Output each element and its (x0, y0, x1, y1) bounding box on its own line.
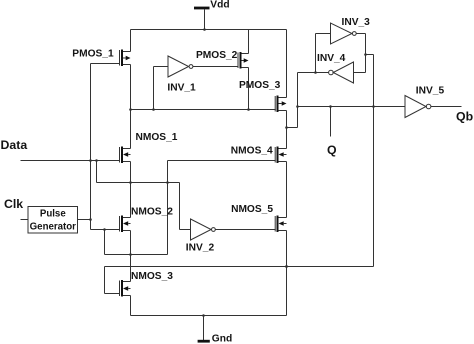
wire to INV_2 input (180, 183, 191, 230)
inverter INV_2 (191, 219, 216, 240)
svg-text:INV_3: INV_3 (342, 17, 371, 28)
svg-text:INV_2: INV_2 (186, 243, 215, 254)
node Data junction (89, 159, 92, 162)
wire PMOS_2 source to node X (247, 68, 250, 111)
wire PMOS_3 source down to NMOS_4 drain (286, 111, 288, 149)
svg-text:NMOS_2: NMOS_2 (131, 207, 173, 218)
svg-text:PMOS_3: PMOS_3 (239, 80, 281, 91)
inverter INV_1 (168, 56, 193, 77)
wire middle horizontal (97, 182, 180, 184)
wire Vdd rail (131, 29, 287, 31)
inverter INV_5 (405, 96, 431, 118)
wire storage node branch to INV_4 output (285, 73, 297, 129)
wire NMOS_3 gate riser to feedback (105, 267, 121, 294)
transistor NMOS_3 (120, 280, 131, 297)
svg-text:NMOS_1: NMOS_1 (136, 132, 178, 143)
transistor PMOS_2 (238, 52, 249, 69)
transistor NMOS_2 (120, 216, 131, 233)
wire Qb output (431, 106, 462, 108)
wire Pulse Generator output (78, 219, 91, 221)
node Vdd junction (203, 28, 206, 31)
inverter INV_3 (331, 23, 357, 44)
svg-text:PMOS_2: PMOS_2 (196, 50, 238, 61)
wire PMOS_3 drain up to rail right end (286, 30, 288, 98)
svg-text:Clk: Clk (4, 197, 23, 211)
svg-text:Data: Data (1, 138, 28, 152)
wire INV_2 output to NMOS_5 gate (215, 229, 275, 231)
transistor PMOS_1 (120, 50, 131, 67)
wire PMOS_2 drain to rail (248, 30, 250, 54)
wire Q node line (298, 106, 406, 108)
wire INV_1 input (152, 67, 168, 111)
transistor NMOS_1 (120, 147, 131, 164)
wire feedback line from latch (105, 53, 374, 266)
wire PMOS_1 gate to data column (91, 63, 121, 65)
ground symbol (198, 316, 210, 342)
svg-text:INV_1: INV_1 (167, 83, 196, 94)
wire INV_4 output to storage node and INV_3 input (298, 34, 331, 74)
svg-text:Qb: Qb (456, 110, 473, 124)
svg-text:NMOS_3: NMOS_3 (131, 271, 173, 282)
wire NMOS_5 source to ground rail (286, 231, 288, 316)
wire Data input (21, 160, 121, 162)
wire ground rail (131, 315, 287, 317)
wire NMOS_3 source to ground rail (130, 296, 132, 316)
wire INV_1 output to PMOS_2 gate (193, 66, 238, 68)
svg-text:NMOS_4: NMOS_4 (231, 145, 273, 156)
wire INV_3 output loop to INV_4 input (354, 34, 366, 73)
wire Clk input (21, 219, 29, 221)
wire NMOS_2 gate (91, 229, 121, 231)
Vdd power symbol (194, 8, 210, 30)
wire NMOS_1 source down to NMOS_2 drain (130, 162, 132, 218)
transistor NMOS_5 (275, 216, 286, 233)
node X rail (131, 109, 276, 111)
svg-text:INV_5: INV_5 (416, 85, 445, 96)
svg-text:Gnd: Gnd (212, 333, 232, 344)
wire Q label stub (330, 107, 332, 137)
svg-text:PMOS_1: PMOS_1 (72, 49, 114, 60)
svg-text:Pulse: Pulse (40, 209, 66, 220)
transistor NMOS_4 (275, 147, 286, 164)
wire NMOS_4 source to NMOS_5 drain (286, 162, 288, 218)
svg-text:Q: Q (327, 143, 337, 157)
svg-text:Generator: Generator (30, 221, 77, 232)
wire NMOS_4 gate rail (168, 161, 276, 255)
wire rail down to PMOS_1 drain (130, 30, 132, 52)
wire loop bottom horizontal (105, 230, 168, 255)
svg-text:NMOS_5: NMOS_5 (231, 204, 273, 215)
wire NMOS_2 source down to NMOS_3 drain (130, 231, 132, 282)
wire PMOS_1 source down to NMOS_1 drain (130, 65, 132, 149)
svg-text:Vdd: Vdd (210, 0, 229, 11)
svg-text:INV_4: INV_4 (317, 53, 346, 64)
transistor PMOS_3 (275, 96, 286, 113)
Pulse Generator box (28, 207, 78, 234)
inverter INV_4 (329, 62, 354, 83)
wire data column vertical (90, 64, 92, 230)
wire data loop vertical (96, 161, 98, 183)
